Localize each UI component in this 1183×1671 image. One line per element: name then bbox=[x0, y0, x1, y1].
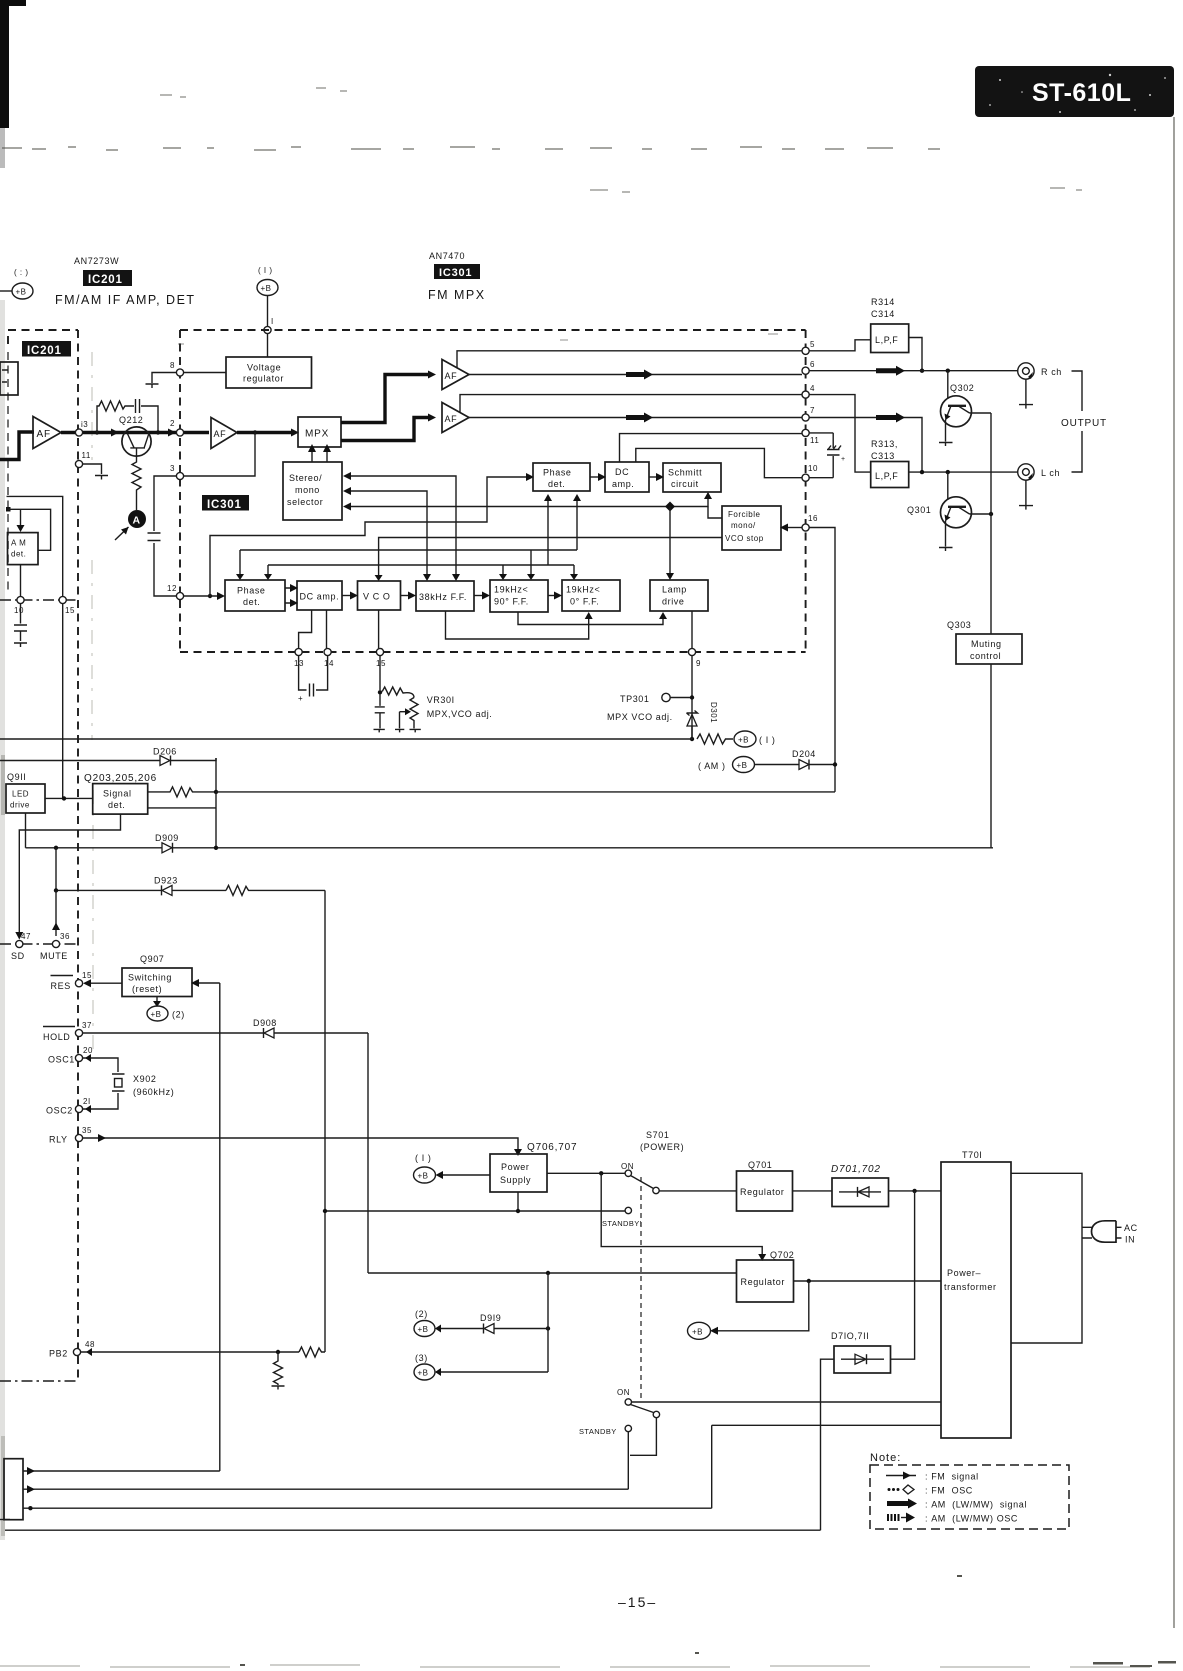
wire Q302 collector to muting rail bbox=[970, 412, 992, 414]
scan artifact: faint fold column x=92 bbox=[92, 352, 93, 1050]
pin 21 OSC2 bbox=[46, 1097, 91, 1116]
svg-text:–15–: –15– bbox=[618, 1594, 657, 1610]
wire signal det output 2 bbox=[148, 792, 216, 848]
svg-text:Q302: Q302 bbox=[950, 383, 974, 393]
scan artifact: top-left black bar bbox=[0, 0, 26, 168]
svg-text:V C O: V C O bbox=[363, 592, 391, 602]
pin 15 RES bbox=[51, 971, 92, 991]
svg-text:drive: drive bbox=[10, 801, 30, 810]
svg-text:X902: X902 bbox=[133, 1074, 156, 1084]
badge IC301 (title) bbox=[434, 264, 480, 279]
wire power supply bottom bbox=[517, 1192, 519, 1211]
pin 3 bbox=[170, 464, 184, 480]
filter L.P.F (R ch) bbox=[871, 324, 909, 353]
block DC amp (lower) bbox=[297, 581, 342, 610]
wire PB2 line bbox=[81, 1348, 299, 1356]
svg-text:STANDBY: STANDBY bbox=[579, 1427, 617, 1436]
svg-text:9: 9 bbox=[696, 659, 701, 668]
svg-text:selector: selector bbox=[287, 497, 323, 507]
wire pin16 into forcible bbox=[780, 524, 802, 532]
wire 19kHz90 to 19kHz0 bbox=[548, 592, 562, 600]
wires selector to MPX (2 arrows up) bbox=[308, 444, 331, 462]
wire D701,702 to transformer bbox=[889, 1189, 942, 1193]
svg-text:(2): (2) bbox=[172, 1010, 185, 1020]
svg-text:IC201: IC201 bbox=[27, 345, 62, 357]
svg-text:det.: det. bbox=[243, 597, 260, 607]
wire D909 line to D923 line bbox=[55, 848, 57, 891]
svg-text:Power: Power bbox=[501, 1162, 530, 1172]
node L line joins bbox=[920, 470, 950, 474]
supply +B (3) bbox=[414, 1273, 548, 1380]
wire DC amp to Schmitt bbox=[649, 473, 664, 481]
wire LED to signal det bbox=[45, 796, 93, 800]
diode D919 bbox=[435, 1313, 550, 1334]
svg-text:ST-610L: ST-610L bbox=[1032, 79, 1131, 107]
wire main IF line to pin 2 bbox=[61, 431, 209, 434]
wire standby2 jog bbox=[628, 1418, 656, 1490]
ground (pin 8) bbox=[146, 384, 159, 388]
wire AM det loop top bbox=[6, 507, 51, 550]
svg-text:Signal: Signal bbox=[103, 789, 132, 799]
wire pin5 to LPF R bbox=[809, 340, 871, 351]
legend FM OSC bbox=[888, 1485, 973, 1496]
bracket OUTPUT bbox=[1061, 371, 1107, 472]
wire pin6 to R ch jack bbox=[809, 370, 1017, 372]
resistor PB2 line bbox=[299, 1347, 325, 1357]
svg-text:Q706,707: Q706,707 bbox=[527, 1142, 577, 1153]
svg-text:: AM (LW/MW) signal: : AM (LW/MW) signal bbox=[925, 1500, 1027, 1510]
block Power Supply bbox=[490, 1154, 547, 1192]
svg-text:3: 3 bbox=[170, 464, 175, 473]
supply +B Q702 bbox=[688, 1281, 809, 1339]
block Schmitt circuit bbox=[663, 463, 721, 492]
wire pin 11 to DC amp top bbox=[620, 434, 803, 462]
svg-text:amp.: amp. bbox=[612, 479, 634, 489]
svg-text:(3): (3) bbox=[415, 1353, 428, 1363]
svg-text:T70I: T70I bbox=[962, 1150, 982, 1160]
model badge ST-610L bbox=[975, 66, 1174, 117]
block Switching (reset) bbox=[122, 968, 192, 997]
pin 11 (IC201) bbox=[75, 451, 90, 468]
svg-text:IN: IN bbox=[1125, 1235, 1135, 1245]
block MPX bbox=[298, 417, 341, 447]
diode D301 (zener) bbox=[687, 702, 719, 726]
wire Q702 out to transformer bbox=[794, 1279, 942, 1283]
badge IC301 (inner) bbox=[202, 495, 249, 511]
pin 14 bbox=[324, 648, 334, 668]
node Q212 collector bbox=[156, 430, 160, 434]
AM signal arrow (R output) bbox=[876, 366, 905, 376]
wire regulator to D701,702 bbox=[793, 1190, 833, 1192]
diode block D701,702 bbox=[831, 1164, 889, 1207]
transistor Q212 bbox=[119, 415, 151, 457]
wire AM det to pin10 bbox=[20, 565, 22, 597]
amplifier AF (L channel) bbox=[442, 403, 469, 433]
wire switch to Q701 regulator bbox=[659, 1190, 736, 1192]
svg-text:STANDBY!: STANDBY! bbox=[602, 1219, 642, 1228]
wire VCO to pin15 bbox=[378, 610, 380, 648]
svg-text:MPX,VCO adj.: MPX,VCO adj. bbox=[427, 709, 493, 719]
wire signal det bottom to SD bbox=[19, 814, 120, 936]
svg-text:: AM (LW/MW) OSC: : AM (LW/MW) OSC bbox=[925, 1514, 1018, 1524]
gang link dashed bbox=[640, 1177, 642, 1400]
svg-text:+B: +B bbox=[261, 284, 272, 293]
svg-text:OSC2: OSC2 bbox=[46, 1106, 73, 1116]
pins 5,6,4,7,11,10,16 on right edge bbox=[802, 340, 819, 531]
svg-text:Schmitt: Schmitt bbox=[668, 468, 702, 478]
arrow into SD pin bbox=[15, 932, 23, 940]
svg-text:R314: R314 bbox=[871, 297, 895, 307]
capacitor (pin3-pin12) bbox=[148, 533, 161, 541]
svg-text:D301: D301 bbox=[709, 702, 718, 723]
AM signal arrow (L line inside IC) bbox=[626, 413, 653, 423]
wire power supply to ON contact bbox=[547, 1171, 625, 1175]
svg-text:10: 10 bbox=[14, 606, 24, 615]
muting rail vertical bbox=[990, 413, 992, 848]
svg-text:transformer: transformer bbox=[944, 1282, 997, 1292]
wire signal det output to pin16 rail bbox=[214, 790, 835, 794]
legend AM signal bbox=[887, 1499, 1027, 1510]
svg-text:7: 7 bbox=[810, 406, 815, 415]
svg-text:0° F.F.: 0° F.F. bbox=[570, 597, 599, 607]
supply +B (2) reset bbox=[147, 997, 185, 1022]
svg-text:4: 4 bbox=[810, 384, 815, 393]
ground (below pin10) bbox=[14, 643, 27, 647]
wire MUTE riser bbox=[52, 890, 60, 936]
svg-text:Q907: Q907 bbox=[140, 954, 164, 964]
svg-text:AN7273W: AN7273W bbox=[74, 256, 119, 266]
pin 47 SD bbox=[11, 932, 31, 961]
ground (Q302 emitter) bbox=[939, 420, 953, 446]
svg-text:2I: 2I bbox=[83, 1097, 91, 1106]
wire pin12 riser to phase det (upper) bbox=[208, 473, 534, 598]
wire DC amp to pin14 bbox=[326, 610, 328, 648]
wire 38kHz to 19kHz90 bbox=[474, 592, 490, 600]
svg-text:Regulator: Regulator bbox=[741, 1277, 785, 1287]
resistor feedback (Q212) bbox=[97, 401, 127, 433]
svg-text:47: 47 bbox=[21, 932, 31, 941]
node LPF R join bbox=[920, 369, 924, 373]
svg-text:Voltage: Voltage bbox=[247, 363, 281, 373]
wire pin12 into phase det bbox=[184, 592, 226, 600]
svg-text:+B: +B bbox=[151, 1010, 162, 1019]
pin 48 PB2 bbox=[49, 1340, 95, 1359]
wire standby feed line bbox=[323, 1209, 628, 1213]
svg-text:mono: mono bbox=[295, 485, 320, 495]
svg-text:A: A bbox=[133, 515, 141, 527]
wire selector input 3 / Schmitt to lamp bbox=[343, 492, 722, 580]
svg-text:+B: +B bbox=[418, 1369, 429, 1378]
filter L.P.F (L ch) bbox=[871, 462, 909, 488]
wire pin8 to voltage regulator bbox=[184, 372, 227, 374]
pin 15 (IC201) bbox=[59, 596, 75, 615]
svg-text:Power–: Power– bbox=[947, 1268, 981, 1278]
svg-text:OUTPUT: OUTPUT bbox=[1061, 418, 1107, 429]
svg-text:15: 15 bbox=[82, 971, 92, 980]
wire 19kHz0 outputs bus bbox=[264, 494, 578, 580]
amplifier AF (IF amp) bbox=[33, 417, 61, 449]
wire pin7 to L line bbox=[809, 418, 922, 473]
svg-text:A M: A M bbox=[11, 539, 26, 548]
svg-text:35: 35 bbox=[82, 1126, 92, 1135]
svg-text:det.: det. bbox=[11, 550, 26, 559]
svg-text:: FM OSC: : FM OSC bbox=[925, 1486, 973, 1496]
pin 2 bbox=[170, 419, 184, 436]
node Q212 feedback left bbox=[95, 430, 99, 434]
connector R ch bbox=[1018, 363, 1062, 379]
block DC amp (upper) bbox=[605, 462, 649, 492]
svg-text:FM MPX: FM MPX bbox=[428, 288, 486, 302]
wire D710,711 to node bbox=[891, 1191, 915, 1359]
svg-text:2: 2 bbox=[170, 419, 175, 428]
pin 9 bbox=[688, 648, 701, 668]
svg-text:D923: D923 bbox=[154, 876, 178, 886]
arrow into Q212 base bbox=[111, 429, 119, 437]
svg-text:D908: D908 bbox=[253, 1018, 277, 1028]
svg-text:MUTE: MUTE bbox=[40, 951, 68, 961]
svg-text:Q9II: Q9II bbox=[7, 772, 26, 782]
system-control IC bottom dash-dot edge bbox=[0, 1380, 79, 1382]
svg-text:15: 15 bbox=[65, 606, 75, 615]
ground (pin 11) bbox=[95, 476, 108, 480]
contact STANDBY1 bbox=[602, 1207, 642, 1228]
amplifier AF (R channel) bbox=[442, 360, 469, 390]
svg-text:(POWER): (POWER) bbox=[640, 1142, 684, 1152]
svg-text:AF: AF bbox=[445, 371, 458, 381]
wire pin5 branch bbox=[457, 351, 802, 368]
pin 20 OSC1 bbox=[48, 1046, 93, 1065]
wire DC amp to pin13 bbox=[299, 610, 312, 648]
supply +B (1) left bbox=[0, 268, 33, 299]
svg-text:8: 8 bbox=[170, 361, 175, 370]
wire AF-L output to pin 7 bbox=[469, 417, 802, 419]
connector J (left margin) bbox=[0, 1459, 23, 1520]
svg-text:Regulator: Regulator bbox=[740, 1187, 784, 1197]
node D301 bottom bbox=[690, 737, 694, 741]
pin 13 bbox=[75, 420, 88, 436]
svg-text:RLY: RLY bbox=[49, 1135, 68, 1145]
supply (AM) +B bbox=[698, 757, 755, 773]
svg-text:10: 10 bbox=[808, 464, 818, 473]
svg-text:Forcible: Forcible bbox=[728, 510, 761, 519]
AM signal arrow (R line inside IC) bbox=[626, 370, 653, 380]
svg-text:Stereo/: Stereo/ bbox=[289, 473, 322, 483]
scan artifact: left margin gray band bbox=[0, 300, 5, 1540]
resistor PB2 pulldown bbox=[274, 1352, 283, 1385]
wire connector line 4 to D710,711 bbox=[5, 1529, 821, 1531]
wire transformer secondary 2 bbox=[712, 1425, 941, 1508]
block Muting control bbox=[956, 634, 1022, 664]
svg-text:MPX VCO adj.: MPX VCO adj. bbox=[607, 712, 673, 722]
block Voltage regulator bbox=[226, 357, 312, 388]
transistor Q302 bbox=[941, 371, 975, 427]
wire pin11 to ground bbox=[83, 464, 102, 474]
block VCO bbox=[358, 581, 401, 610]
svg-text:(reset): (reset) bbox=[132, 984, 162, 994]
amplifier AF (MPX input) bbox=[211, 418, 237, 449]
block Phase det (upper) bbox=[533, 463, 590, 491]
svg-text:DC amp.: DC amp. bbox=[300, 592, 340, 602]
wire phase det to DC amp bbox=[590, 473, 606, 481]
node AF out branch (pin3 riser) bbox=[253, 430, 257, 434]
resistor Q212 emitter bbox=[132, 457, 141, 510]
block LED drive bbox=[6, 784, 45, 813]
svg-text:IC201: IC201 bbox=[88, 274, 123, 286]
diode D909 bbox=[26, 833, 994, 853]
svg-text:12: 12 bbox=[167, 584, 177, 593]
block Lamp drive bbox=[650, 580, 708, 611]
wire pin3 capacitor chain to pin12 bbox=[154, 476, 177, 596]
svg-text:D204: D204 bbox=[792, 749, 816, 759]
wire connector line 2 to standby2 bbox=[23, 1485, 628, 1493]
svg-text:20: 20 bbox=[83, 1046, 93, 1055]
wires phase det to DC amp (2) bbox=[285, 584, 298, 607]
svg-text:DC: DC bbox=[615, 467, 629, 477]
badge IC201 (title) bbox=[83, 270, 132, 286]
svg-text:ON: ON bbox=[617, 1388, 630, 1397]
wire lamp drive to pin9 bbox=[691, 611, 693, 648]
ground (Q301 emitter) bbox=[939, 521, 953, 551]
svg-text:L,P,F: L,P,F bbox=[875, 471, 898, 481]
svg-text:regulator: regulator bbox=[243, 374, 284, 384]
svg-text:AC: AC bbox=[1124, 1223, 1138, 1233]
svg-text:6: 6 bbox=[810, 360, 815, 369]
diode block D710,711 bbox=[831, 1331, 891, 1373]
svg-text:L ch: L ch bbox=[1041, 468, 1060, 478]
svg-text:C313: C313 bbox=[871, 451, 895, 461]
svg-text:i3: i3 bbox=[81, 420, 88, 429]
legend AM OSC bbox=[888, 1513, 1018, 1524]
svg-text:Supply: Supply bbox=[500, 1175, 531, 1185]
svg-text:AF: AF bbox=[37, 429, 51, 440]
supply +B (2) D919 bbox=[414, 1309, 435, 1337]
wire switching to RES bbox=[83, 979, 122, 987]
svg-text:Q212: Q212 bbox=[119, 415, 143, 425]
wire (AM)+B to D204 bbox=[755, 764, 800, 766]
svg-text:: FM signal: : FM signal bbox=[925, 1472, 979, 1482]
svg-text:Q702: Q702 bbox=[770, 1250, 794, 1260]
svg-text:+B: +B bbox=[418, 1172, 429, 1181]
wire pin15 rail down to LED node bbox=[62, 604, 64, 799]
partial box at left margin bbox=[0, 362, 18, 395]
svg-text:15: 15 bbox=[376, 659, 386, 668]
wire connector line 3 to transformer secondary bbox=[23, 1506, 712, 1510]
ground (R jack) bbox=[1019, 379, 1033, 408]
svg-text:Q701: Q701 bbox=[748, 1160, 772, 1170]
wire RLY to power supply bbox=[83, 1134, 522, 1156]
wire D923 rail down to PB2 bbox=[324, 890, 326, 1352]
svg-text:D909: D909 bbox=[155, 833, 179, 843]
svg-text:14: 14 bbox=[324, 659, 334, 668]
wire AF to MPX bbox=[237, 431, 294, 434]
resistor signal det output bbox=[148, 787, 216, 797]
svg-text:I: I bbox=[271, 317, 274, 326]
svg-text:5: 5 bbox=[810, 340, 815, 349]
wire Q702 input line bbox=[368, 1271, 737, 1275]
svg-text:C314: C314 bbox=[871, 309, 895, 319]
contact STANDBY2 bbox=[579, 1425, 632, 1436]
diode D204 bbox=[792, 749, 837, 770]
svg-text:Note:: Note: bbox=[870, 1452, 901, 1464]
svg-text:D701,702: D701,702 bbox=[831, 1164, 881, 1175]
block Regulator Q701 bbox=[737, 1171, 793, 1211]
svg-text:HOLD: HOLD bbox=[43, 1032, 70, 1042]
wire VCO to 38kHz bbox=[401, 592, 417, 600]
svg-text:( I ): ( I ) bbox=[258, 266, 273, 275]
svg-text:38kHz F.F.: 38kHz F.F. bbox=[419, 592, 467, 602]
capacitor below pin10 bbox=[14, 604, 27, 641]
pin 12 bbox=[167, 584, 184, 600]
svg-text:11: 11 bbox=[82, 451, 91, 460]
svg-text:D206: D206 bbox=[153, 747, 177, 757]
IC201 bottom dash-dot edge bbox=[0, 599, 78, 601]
wire LED drive down to D909 line bbox=[25, 813, 27, 848]
ground (L jack) bbox=[1019, 480, 1033, 509]
wire switching input rail bbox=[191, 979, 220, 1471]
wire LPF R out to R line bbox=[909, 338, 922, 371]
svg-text:circuit: circuit bbox=[671, 479, 699, 489]
wire 38kHz feedback to 19kHz0 bbox=[446, 611, 593, 639]
svg-text:control: control bbox=[970, 651, 1001, 661]
wire selector input 1 (38kHz) bbox=[343, 472, 460, 581]
svg-text:drive: drive bbox=[662, 597, 685, 607]
page right edge line bbox=[1173, 117, 1175, 1628]
pin 1 bbox=[264, 317, 274, 334]
svg-text:mono/: mono/ bbox=[731, 521, 756, 530]
wire transformer AC loop bbox=[1011, 1173, 1082, 1343]
svg-text:Phase: Phase bbox=[543, 468, 572, 478]
pin 13 bbox=[294, 648, 304, 668]
svg-text:VCO stop: VCO stop bbox=[725, 534, 764, 543]
label R314 C314 bbox=[871, 297, 895, 319]
svg-text:+B: +B bbox=[737, 761, 748, 770]
pin 8 bbox=[170, 361, 184, 376]
supply +B (1) for IC301 pin1 bbox=[257, 266, 278, 296]
wire selector input 2 (38kHz) bbox=[343, 487, 431, 581]
supply +B (1) power bbox=[414, 1153, 491, 1183]
svg-text:AF: AF bbox=[214, 429, 227, 439]
wire DC amp to VCO bbox=[342, 592, 358, 600]
node Q302 base tap bbox=[946, 369, 950, 373]
block Signal det bbox=[93, 784, 148, 815]
wire 19kHz90 feedback to lamp drive bbox=[518, 612, 667, 625]
svg-text:( I ): ( I ) bbox=[759, 735, 776, 745]
pin 37 HOLD bbox=[43, 1021, 92, 1042]
svg-text:+B: +B bbox=[16, 288, 27, 297]
wire D908 to Q702 input bbox=[367, 1033, 369, 1273]
svg-text:Q301: Q301 bbox=[907, 505, 931, 515]
svg-text:R313,: R313, bbox=[871, 439, 898, 449]
svg-text:D9I9: D9I9 bbox=[480, 1313, 501, 1323]
block Phase det (lower) bbox=[225, 580, 285, 611]
wire pin4 to LPF L bbox=[809, 395, 871, 473]
resistor to +B (1) bbox=[697, 734, 733, 744]
svg-text:OSC1: OSC1 bbox=[48, 1055, 75, 1065]
wire D710,711 left rail bbox=[821, 1359, 835, 1530]
test point TP301 bbox=[620, 693, 694, 704]
wire D206 branch bbox=[0, 747, 216, 792]
wire LPF L out / L line to jack bbox=[909, 471, 1018, 473]
connector AC IN plug bbox=[1082, 1221, 1137, 1245]
crystal X902 bbox=[83, 1054, 175, 1109]
wire MPX out upper to AF R bbox=[341, 375, 430, 423]
supply +B (1) mpx bbox=[734, 731, 776, 747]
svg-text:+B: +B bbox=[738, 736, 749, 745]
IC201 box dashed outline bbox=[8, 330, 78, 344]
pin 35 RLY bbox=[49, 1126, 92, 1145]
svg-text:SD: SD bbox=[11, 951, 25, 961]
svg-text:11: 11 bbox=[810, 436, 819, 445]
